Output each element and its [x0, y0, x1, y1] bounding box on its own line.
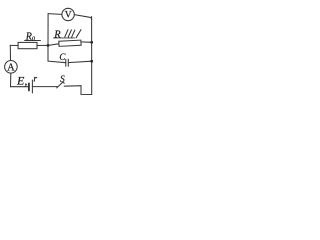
rheostat slash 2: [68, 30, 71, 37]
junction dot right rail at R wire: [90, 41, 93, 44]
wire: junction node to R box: [48, 44, 59, 46]
svg-text:S: S: [60, 75, 65, 85]
wire: voltmeter branch vertical: [47, 14, 49, 62]
capacitor plate right: [67, 59, 69, 66]
battery short thick plate: [28, 83, 30, 90]
rheostat slash 3: [72, 30, 75, 37]
rheostat arrow diagonal: [76, 30, 81, 38]
wire: top-left horizontal to R0: [10, 44, 18, 46]
wire: switch right to jog down to bottom-right corner: [64, 86, 92, 95]
resistor R0 box: [18, 42, 37, 48]
resistor R box (tilted): [59, 40, 81, 46]
wire: voltmeter left lead: [48, 13, 62, 16]
label underline under R ///: [54, 37, 75, 39]
svg-text:A: A: [7, 63, 15, 74]
wire: bottom wire to battery: [11, 86, 29, 88]
wire: left rail below ammeter: [10, 73, 12, 87]
wire: R box right to right rail: [81, 41, 92, 43]
junction dot at R0/R/V node: [47, 44, 50, 47]
svg-text:R: R: [53, 30, 61, 41]
label underline under R0: [25, 40, 41, 42]
svg-text:V: V: [65, 11, 72, 21]
wire: left rail from top corner down to ammeter: [9, 45, 11, 60]
battery long thin plate: [31, 80, 33, 93]
wire: voltmeter right lead to top-right corner: [74, 15, 91, 20]
svg-text:C: C: [59, 52, 66, 62]
svg-text:r: r: [33, 74, 37, 84]
voltmeter circle: [62, 8, 74, 20]
rheostat slash 1: [65, 30, 68, 37]
capacitor plate left: [65, 59, 67, 66]
switch blade: [57, 82, 65, 87]
wire: battery to switch contact: [32, 86, 57, 88]
wire: capacitor branch right: [68, 61, 91, 62]
wire: capacitor branch left: [48, 61, 66, 63]
ammeter circle: [5, 61, 18, 74]
junction dot right rail at C wire: [90, 60, 93, 63]
svg-text:E,: E,: [16, 74, 27, 88]
wire: right rail: [91, 17, 93, 95]
wire: R0 right to junction node: [37, 44, 48, 46]
